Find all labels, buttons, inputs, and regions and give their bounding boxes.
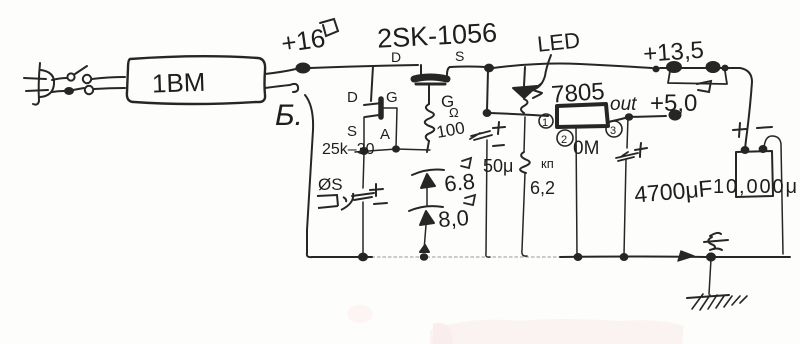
transistor Q1 gate wire — [384, 108, 397, 148]
U2 pin2 ground wire — [576, 128, 577, 255]
transistor Q2 2SK-1056 drain step — [420, 65, 422, 74]
wire C2 branch upper — [487, 70, 488, 111]
resistor R2 wire lower — [522, 173, 527, 256]
svg-text:G: G — [386, 89, 398, 106]
zener diode VD1 triangle — [421, 174, 435, 188]
jumper bracket — [668, 71, 727, 84]
transistor Q2 body bar — [414, 77, 447, 79]
AC plug P1 body — [33, 63, 40, 105]
transistor Q1 drain arm — [364, 103, 382, 105]
junction dot OS-CON on rail — [359, 254, 367, 261]
wire module to +16 node — [265, 69, 296, 74]
capacitor C3 plus mark — [635, 143, 647, 157]
zener diode VD2 cathode bar — [409, 206, 443, 211]
transistor Q1 gate bar — [378, 99, 384, 117]
svg-text:S: S — [455, 48, 464, 64]
svg-text:0M: 0M — [573, 138, 599, 159]
wire C2 bottom to rail — [486, 140, 490, 257]
svg-text:Б.: Б. — [275, 99, 303, 132]
LED D1 squiggle lead — [521, 99, 528, 113]
arrowhead at zener bottom — [420, 245, 429, 252]
top rail LED to +13.5 — [493, 64, 652, 69]
junction dot pin2 on rail — [575, 254, 582, 260]
svg-text:+13,5: +13,5 — [642, 37, 704, 68]
LED D1 cathode tick — [533, 94, 541, 98]
ground symbol baseline — [687, 295, 729, 298]
capacitor C2 plus sign — [493, 122, 505, 134]
transistor Q2 source wire to rail — [447, 67, 486, 76]
C4 minus sign — [757, 127, 772, 128]
svg-text:LED: LED — [536, 27, 581, 56]
terminal dot +5.0 — [670, 111, 681, 120]
bottom rail faint middle segment — [372, 256, 560, 258]
switch S1 pole1 contact a — [67, 73, 74, 80]
svg-text:6,2: 6,2 — [530, 178, 555, 198]
top rail between jumper dots — [660, 67, 740, 69]
transistor Q1 source arm — [365, 115, 379, 117]
junction dot top rail at C2 branch — [485, 65, 493, 72]
svg-text:S: S — [347, 123, 357, 140]
wire R1 to zener chain — [427, 141, 429, 152]
zener diode VD2 triangle — [420, 211, 434, 225]
junction dot zener on rail — [421, 254, 427, 260]
pink smudge corner — [433, 323, 453, 344]
junction dot Q1 source — [361, 148, 368, 154]
svg-text:1: 1 — [542, 117, 548, 129]
label 6.8 sup V — [461, 158, 471, 168]
top rail right curve down to C4 — [740, 68, 752, 149]
resistor R1 100 ohm zigzag — [425, 104, 434, 141]
ground symbol hatches — [692, 294, 747, 310]
svg-text:2: 2 — [561, 134, 567, 146]
wire module B output with hook — [265, 84, 298, 92]
svg-text:50μ: 50μ — [483, 156, 513, 176]
capacitor C1 minus sign — [374, 203, 387, 204]
svg-text:+5,0: +5,0 — [650, 90, 697, 117]
junction dot out node — [626, 114, 632, 120]
resistor R2 zigzag — [520, 152, 530, 173]
label katakana kon — [317, 195, 338, 208]
svg-text:6.8: 6.8 — [443, 169, 476, 197]
C4 plus sign — [733, 123, 746, 137]
label +5.0 sup V — [697, 81, 711, 92]
small dot after jumper — [722, 66, 727, 71]
capacitor C2 minus sign — [493, 145, 504, 146]
C4 terminal dot plus — [742, 147, 749, 153]
bottom rail left segment — [307, 253, 372, 257]
transistor Q1 source wire — [363, 117, 365, 149]
wire switch pole2 to module — [94, 88, 125, 89]
pink smudge bottom band — [430, 319, 684, 344]
wire C3 4700u upper — [627, 117, 628, 148]
junction dot ground node — [707, 253, 715, 260]
zener diode VD1 cathode bar — [412, 170, 444, 175]
label 8.0 sup V — [464, 195, 475, 205]
small dot before jumper — [653, 67, 658, 72]
wire LED branch from rail — [524, 67, 525, 86]
svg-text:D: D — [347, 89, 358, 106]
junction dot C3 on rail — [621, 254, 628, 260]
wire OS-CON top — [363, 154, 364, 188]
transistor Q1 drain wire from rail — [371, 66, 373, 101]
switch S1 pole2 lever — [73, 88, 84, 90]
svg-text:1ВМ: 1ВМ — [151, 67, 205, 99]
svg-text:25k–30: 25k–30 — [322, 141, 375, 158]
power module U1 box — [127, 56, 265, 104]
U2 pin1 circle — [539, 114, 553, 128]
node +16 junction dot — [297, 64, 310, 73]
svg-text:ØS: ØS — [318, 175, 343, 194]
AC plug prong bottom — [26, 90, 48, 91]
bottom rail right segment — [560, 256, 790, 259]
resistor R2 6.2k wire upper — [524, 117, 525, 152]
wire OS-CON bottom — [362, 202, 364, 255]
svg-text:D: D — [391, 49, 401, 65]
label +16 superscript V — [320, 19, 338, 36]
svg-text:A: A — [380, 126, 390, 143]
switch S1 pole2 contact a — [65, 88, 73, 94]
node wire under Q1 — [355, 149, 430, 152]
ground wire down — [709, 259, 711, 294]
AC plug prong top — [24, 78, 46, 79]
jumper dot left — [667, 62, 681, 72]
capacitor C2 50u plate — [470, 131, 492, 140]
wire between zeners — [426, 188, 428, 206]
jumper dot right — [707, 62, 720, 72]
mid rail 7805 input wire — [490, 113, 548, 116]
switch S1 pole1 lever — [75, 66, 87, 74]
transistor Q2 gate wire down — [428, 85, 430, 104]
wire plug to switch pole1 — [52, 78, 67, 80]
ground net symbol Z — [704, 233, 728, 250]
svg-text:8,0: 8,0 — [437, 205, 469, 232]
capacitor C1 OS-CON plate — [352, 193, 374, 200]
svg-text:7805: 7805 — [550, 78, 605, 109]
wire top rail +16 to 2SK drain — [310, 65, 418, 68]
U2 pin2 circle — [557, 130, 573, 146]
C4 terminal dot minus — [760, 146, 767, 152]
wire switch pole1 to module — [92, 77, 125, 79]
capacitor C4 10000u box — [736, 151, 773, 197]
U2 pin3 circle — [606, 121, 622, 137]
svg-text:3: 3 — [610, 125, 616, 137]
ground rail arrowhead — [678, 251, 694, 261]
pink smudge small left — [347, 305, 373, 323]
regulator U2 7805 box — [557, 104, 608, 127]
svg-text:Ω: Ω — [449, 105, 459, 120]
wire plug to switch pole2 — [52, 91, 64, 92]
wire U2 out to +5 dot — [608, 116, 666, 122]
svg-text:out: out — [610, 94, 637, 115]
switch S1 pole2 contact b — [85, 86, 93, 94]
junction dot Q1 gate — [393, 146, 399, 151]
junction dot mid node — [484, 110, 491, 116]
capacitor C3 plate scribble — [616, 152, 638, 161]
C4 minus wire to right rail — [764, 136, 783, 254]
wire C3 lower to rail — [624, 160, 626, 255]
capacitor C1 plus sign — [370, 184, 383, 196]
svg-text:+16: +16 — [279, 23, 327, 59]
switch S1 pole1 contact b — [83, 75, 91, 83]
LED label arrow — [535, 55, 551, 89]
LED D1 triangle — [513, 86, 537, 98]
svg-text:кп: кп — [541, 156, 554, 171]
wire B down left side — [305, 95, 313, 253]
wire zener bottom to rail — [424, 225, 426, 250]
